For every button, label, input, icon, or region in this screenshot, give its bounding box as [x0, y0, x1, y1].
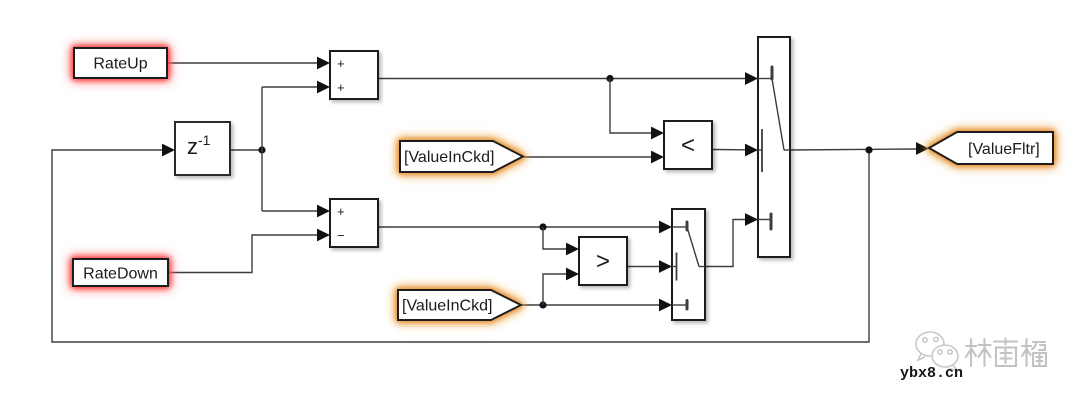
source block RateUp [74, 48, 167, 78]
wire feedback loop from output junction to UnitDelay [52, 150, 869, 342]
svg-text:[ValueFltr]: [ValueFltr] [968, 141, 1040, 158]
arrowhead UnitDelay in [162, 144, 175, 157]
svg-text:[ValueInCkd]: [ValueInCkd] [402, 298, 492, 315]
svg-text:[ValueInCkd]: [ValueInCkd] [404, 149, 494, 166]
arrowhead GreaterThan in1 [566, 243, 579, 256]
arrowhead Switch1 in1 [745, 72, 758, 85]
from tag From1 [ValueInCkd] [400, 141, 523, 172]
node J3 junction on Sum2 output [539, 223, 546, 230]
switch Switch1 [758, 37, 790, 257]
wire Switch1 out to Goto [790, 149, 918, 150]
arrowhead Switch2 in2 [659, 260, 672, 273]
arrowhead Sum1 in1 [317, 57, 330, 70]
svg-text:>: > [596, 248, 610, 275]
unit delay Z1 [175, 122, 230, 175]
svg-text:<: < [681, 132, 695, 159]
switch Switch2 [672, 209, 705, 320]
goto tag Goto [ValueFltr] [929, 132, 1053, 164]
wire J2 to Sum1 in2 [262, 86, 318, 88]
from tag From2 [ValueInCkd] [398, 290, 521, 320]
arrowhead Switch2 in1 [659, 221, 672, 234]
node J2 junction on UnitDelay output [258, 146, 265, 153]
wire Sum2 out to Switch2 in1 [378, 226, 661, 228]
watermark wechat logo [916, 332, 958, 370]
svg-text:−: − [337, 228, 345, 243]
wire J4 up to GreaterThan in2 [543, 274, 568, 305]
arrowhead Switch1 in2 [745, 144, 758, 157]
wire Switch2 out to Switch1 in3 [705, 220, 747, 267]
sum block Sum2 [330, 199, 378, 247]
node J5 output junction [865, 146, 872, 153]
wire From2 to Switch2 in3 [521, 304, 661, 306]
arrowhead GreaterThan in2 [566, 268, 579, 281]
arrowhead LessThan in1 [651, 127, 664, 140]
arrowhead LessThan in2 [651, 151, 664, 164]
wire LessThan out to Switch1 in2 [712, 149, 747, 151]
sum block Sum1 [330, 51, 378, 99]
node J1 junction on Sum1 output [606, 75, 613, 82]
svg-text:+: + [337, 204, 345, 219]
wire J1 down to LessThan in1 [610, 79, 653, 134]
arrowhead Sum2 in1 [317, 205, 330, 218]
wire From1 to LessThan in2 [523, 156, 653, 158]
arrowhead Switch1 in3 [745, 213, 758, 226]
wire RateDown to Sum2 in2 [168, 235, 318, 273]
arrowhead Sum1 in2 [317, 81, 330, 94]
relational operator GreaterThan [579, 237, 627, 285]
arrowhead Switch2 in3 [659, 299, 672, 312]
svg-text:+: + [337, 80, 345, 95]
relational operator LessThan [664, 121, 712, 169]
wire J3 down to GreaterThan in1 [543, 227, 568, 249]
wire J2 vertical branch [261, 87, 263, 211]
watermark text linnanju [966, 339, 1046, 367]
svg-text:RateUp: RateUp [93, 56, 147, 73]
arrowhead Sum2 in2 [317, 229, 330, 242]
wire GreaterThan out to Switch2 in2 [627, 266, 661, 268]
wire J2 to Sum2 in1 [262, 210, 318, 212]
wire Sum1 to Switch1 in1 [378, 78, 747, 80]
wire RateUp to Sum1 [167, 62, 318, 64]
arrowhead Goto in [916, 142, 929, 155]
wire UnitDelay out to J2 [230, 149, 262, 151]
svg-text:ybx8.cn: ybx8.cn [900, 365, 963, 382]
node J4 junction on From2 output [539, 301, 546, 308]
svg-text:RateDown: RateDown [83, 266, 158, 283]
svg-text:+: + [337, 56, 345, 71]
source block RateDown [73, 259, 168, 286]
